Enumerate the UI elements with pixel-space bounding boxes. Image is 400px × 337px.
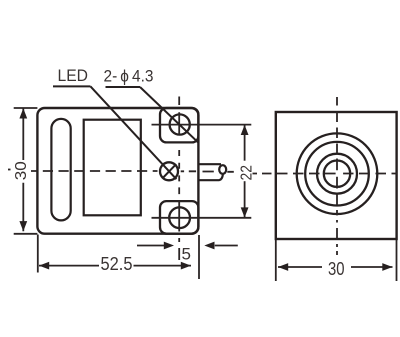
dimension 22: dimension line upper segment <box>244 125 246 161</box>
horizontal centerline left view <box>31 170 158 172</box>
svg-text:LED: LED <box>58 66 89 85</box>
svg-text:30: 30 <box>13 161 30 180</box>
top mounting tab <box>160 108 198 142</box>
display window rectangle <box>84 120 141 216</box>
top mounting hole <box>170 114 190 134</box>
dimension 22: dimension line lower segment <box>244 181 246 217</box>
dimension 30 bottom: left extension line <box>275 240 277 281</box>
vertical centerline through mounting holes <box>178 97 180 261</box>
svg-text:5: 5 <box>182 245 191 264</box>
dimension 5: right line with arrowhead <box>215 245 238 247</box>
sensor body side view outline <box>37 108 198 234</box>
top hole centerline <box>152 124 252 126</box>
outer bezel circle <box>297 133 378 214</box>
dimension 30 left: bottom extension line <box>14 233 38 235</box>
dimension 30 left: top extension line <box>14 107 38 109</box>
horizontal centerline front view <box>253 173 398 175</box>
horizontal centerline right of LED <box>181 170 234 173</box>
dimension 30 bottom: dimension line left segment <box>278 266 322 268</box>
core circle <box>324 161 350 187</box>
dimension 22: bottom arrowhead <box>241 207 249 217</box>
bottom mounting hole <box>169 207 190 228</box>
dimension 22: top arrowhead <box>241 125 249 135</box>
connector cylinder body <box>199 164 223 180</box>
dimension 5: body edge extension line <box>198 235 200 279</box>
connector end face ellipse <box>219 165 226 174</box>
coil circle <box>317 154 357 194</box>
dimension 52.5: right arrowhead <box>181 262 191 270</box>
hole leader line <box>140 87 198 142</box>
vertical centerline front view <box>336 97 338 255</box>
dimension 52.5: dimension line left segment <box>39 265 99 267</box>
LED leader line <box>91 86 177 179</box>
dimension 52.5: dimension line right segment <box>134 265 192 267</box>
LED cross diagonal <box>162 164 176 178</box>
bottom hole centerline <box>152 217 252 219</box>
dimension 52.5: left extension line <box>37 235 39 273</box>
dimension 30 bottom: right arrowhead <box>382 263 392 271</box>
hole label underline <box>106 86 141 88</box>
sensing face circle <box>305 142 369 206</box>
sensor front view outline <box>276 112 397 239</box>
svg-text:2- ϕ 4.3: 2- ϕ 4.3 <box>104 67 154 86</box>
horizontal centerline left dash <box>8 169 11 171</box>
bottom mounting tab <box>160 201 198 234</box>
oval slot <box>51 119 70 220</box>
dimension 30 bottom: left arrowhead <box>278 263 288 271</box>
dimension 30 left: bottom arrowhead <box>19 221 27 231</box>
dimension 30 left: top arrowhead <box>19 108 27 118</box>
svg-text:30: 30 <box>328 259 345 279</box>
dimension 30 left: dimension line <box>22 108 24 231</box>
dimension 52.5: left arrowhead <box>39 262 49 270</box>
dimension 30 bottom: dimension line right segment <box>351 266 393 268</box>
LED label underline <box>53 85 91 87</box>
svg-text:52.5: 52.5 <box>101 254 133 274</box>
dimension 30 bottom: right extension line <box>396 240 398 281</box>
dimension 5: left line with arrowhead <box>137 245 164 247</box>
LED indicator circle <box>160 162 178 180</box>
